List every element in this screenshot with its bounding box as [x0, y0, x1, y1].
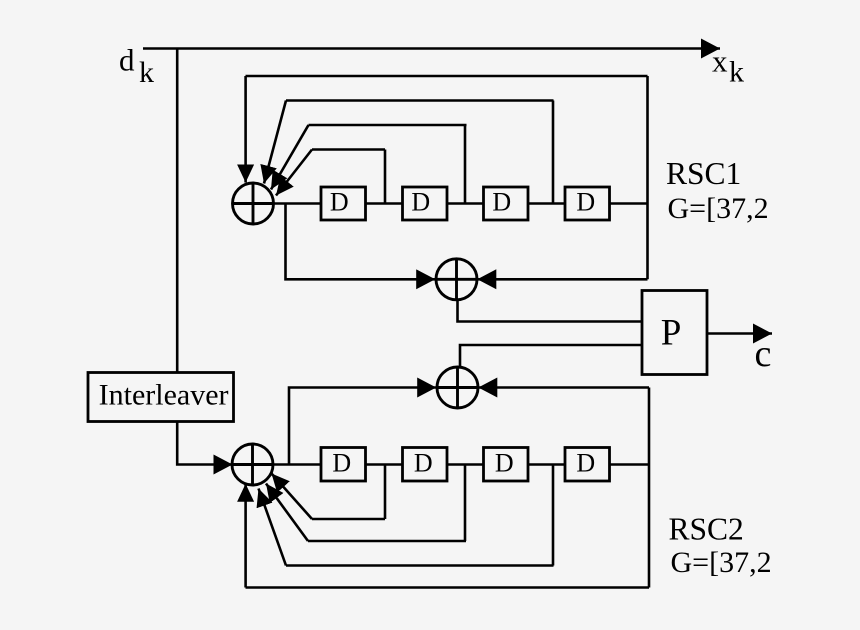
wire: RSC2 feedback from D2 run: [308, 540, 466, 543]
wire: RSC1 feedback from D1 run: [312, 148, 385, 151]
wire: xor U2 output to puncturer P: [458, 300, 643, 322]
wire: RSC1 tap after D1: [384, 150, 387, 204]
svg-text:D: D: [495, 448, 514, 477]
D box R2D4: [565, 448, 610, 482]
wire: RSC2 feedback from D3 run: [286, 564, 554, 567]
svg-text:c: c: [755, 333, 772, 375]
wire: RSC1 feedback diagonal from D2 into xor U1: [271, 125, 309, 190]
wire: RSC1 tap after D3: [552, 101, 555, 204]
wire: RSC2 feedback arrow into xor U4 bottom: [244, 484, 247, 588]
svg-text:D: D: [411, 188, 430, 217]
svg-text:x: x: [712, 44, 728, 79]
wire: RSC1 feedback diagonal from D3 into xor U1: [264, 101, 286, 184]
wire: systematic line d_k to x_k: [143, 47, 720, 50]
svg-text:D: D: [576, 448, 595, 477]
wire: RSC1 feedback from D2 run: [309, 124, 467, 127]
wire: RSC1 feedback from D4 top run: [246, 75, 648, 78]
wire: RSC2 shift register line: [273, 463, 649, 466]
wire: RSC2 tap after D1: [384, 465, 387, 520]
xor U4 (RSC2 input adder): [232, 444, 273, 485]
svg-text:d: d: [119, 43, 135, 78]
svg-text:RSC2: RSC2: [669, 512, 744, 547]
wire: P output arrow c: [707, 332, 772, 335]
D box R2D2: [403, 448, 448, 482]
wire: xor U3 output up to puncturer P: [460, 345, 642, 367]
wire: xor U1 output down to parity xor U2: [286, 204, 436, 280]
wire: RSC1 tap after D4 down to parity: [646, 76, 649, 279]
P box (puncturer): [642, 291, 707, 375]
wire: RSC2 left feed into xor U3: [289, 388, 436, 465]
svg-text:k: k: [139, 56, 154, 89]
D box R1D4: [565, 187, 610, 220]
wire: d_k branch down to interleaver: [176, 49, 179, 373]
xor U2 (RSC1 parity adder): [436, 259, 477, 300]
wire: RSC1 feedback arrow into xor U1 top: [244, 76, 247, 183]
svg-text:D: D: [576, 188, 595, 217]
wire: right feed into xor U3: [478, 386, 649, 389]
wire: RSC2 tap after D4 up to parity and down to feedback: [648, 388, 651, 588]
interleaver box: [88, 373, 234, 422]
svg-text:G=[37,2: G=[37,2: [671, 546, 772, 579]
wire: RSC2 tap after D3: [552, 465, 555, 566]
wire: RSC2 feedback from D1 run: [312, 518, 385, 521]
D box R2D1: [321, 448, 366, 482]
svg-text:P: P: [661, 313, 682, 354]
D box R1D1: [321, 187, 366, 220]
D box R2D3: [484, 448, 529, 482]
svg-text:D: D: [414, 448, 433, 477]
wire: RSC1 shift register line: [274, 202, 649, 205]
svg-text:D: D: [330, 188, 349, 217]
D box R1D2: [403, 187, 448, 220]
svg-text:RSC1: RSC1: [666, 156, 741, 191]
svg-text:Interleaver: Interleaver: [99, 378, 229, 411]
wire: RSC2 tap after D2: [464, 465, 467, 542]
wire: RSC2 feedback diagonal from D1 into xor U4: [272, 474, 313, 520]
xor U3 (RSC2 parity adder): [437, 367, 478, 408]
wire: interleaver output into xor U4: [177, 422, 232, 465]
wire: RSC2 feedback diagonal from D3 into xor U4: [259, 489, 287, 566]
wire: RSC1 feedback from D3 run: [286, 99, 554, 102]
wire: RSC1 tap after D2: [464, 125, 467, 204]
wire: RSC2 feedback diagonal from D2 into xor U4: [266, 484, 308, 542]
svg-text:G=[37,2: G=[37,2: [668, 192, 769, 225]
wire: right feed into xor U2: [477, 278, 647, 281]
svg-text:D: D: [332, 448, 351, 477]
xor U1 (RSC1 input adder): [233, 183, 274, 224]
svg-text:D: D: [492, 188, 511, 217]
D box R1D3: [484, 187, 529, 220]
wire: RSC1 feedback diagonal from D1 into xor U1: [276, 150, 312, 196]
svg-text:k: k: [729, 56, 744, 89]
wire: RSC2 feedback from D4 bottom run: [246, 586, 650, 589]
